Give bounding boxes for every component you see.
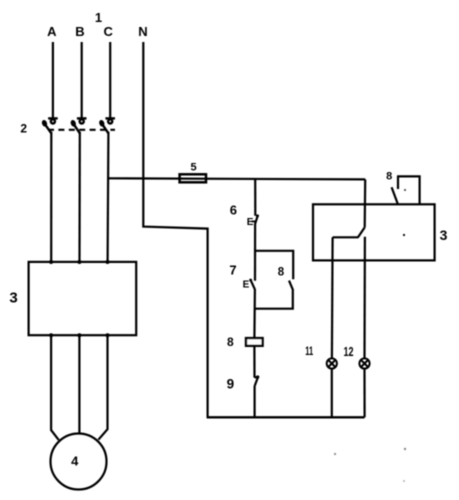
- svg-text:2: 2: [20, 121, 27, 135]
- wire contact 9 to bus: [254, 386, 256, 418]
- wire control feed horizontal: [108, 178, 366, 179]
- svg-text:8: 8: [227, 335, 234, 349]
- switch S2 mechanical link (dashed): [48, 129, 115, 131]
- wire phase C drop: [109, 42, 111, 118]
- svg-text:1: 1: [95, 10, 102, 25]
- terminal dots on box 3: [49, 260, 109, 337]
- wire neutral N drop: [143, 42, 207, 417]
- wire coil 8 to contact 9: [253, 346, 255, 378]
- wire motor lead C: [98, 335, 107, 440]
- auxiliary contact 8: [289, 281, 293, 290]
- seal-in branch bottom wire: [255, 289, 293, 309]
- contactor box 3 (right): [313, 204, 435, 260]
- wire phase A drop: [52, 42, 54, 118]
- wire motor lead A: [51, 335, 59, 440]
- thermal box 3 (left): [29, 262, 137, 335]
- bottom neutral bus: [207, 416, 365, 418]
- wire lamp 11 branch: [331, 237, 334, 358]
- wire lamp 12 to bus: [363, 369, 365, 418]
- wire lamp 12 branch: [363, 237, 366, 359]
- wire phase A to box 3: [50, 132, 52, 262]
- svg-text:6: 6: [230, 202, 237, 217]
- svg-text:12: 12: [344, 345, 354, 359]
- junction dot inside box 3: [403, 234, 405, 236]
- stray scan speck: [334, 453, 336, 455]
- svg-text:E: E: [247, 217, 254, 228]
- wire motor lead B: [78, 335, 80, 434]
- fuse F5 body: [180, 174, 206, 182]
- seal-in branch top wire: [255, 251, 293, 279]
- svg-text:B: B: [75, 24, 84, 39]
- svg-text:5: 5: [191, 162, 197, 174]
- svg-text:8: 8: [278, 266, 285, 278]
- contact 9: [255, 375, 260, 386]
- control branch: wire from feed to contact 6: [254, 179, 256, 216]
- switch S2 pole C: [98, 118, 115, 133]
- switch S2 pole B: [70, 118, 87, 133]
- coil 8 body: [246, 338, 263, 346]
- svg-text:4: 4: [71, 454, 79, 469]
- svg-text:11: 11: [305, 346, 313, 358]
- wire phase B to box 3: [78, 132, 81, 262]
- wire lamp 11 to bus: [331, 369, 333, 418]
- wire contact 7 to coil 8: [253, 289, 256, 338]
- svg-text:8: 8: [386, 171, 392, 183]
- motor M4: [51, 434, 107, 490]
- stray scan speck: [403, 480, 405, 482]
- scan speck in contact-8 bracket: [404, 189, 406, 191]
- svg-text:E: E: [243, 280, 250, 291]
- svg-text:7: 7: [229, 263, 236, 278]
- contact 7 (push-button E): [243, 279, 255, 291]
- svg-text:C: C: [104, 24, 114, 39]
- contact 8 above box 3: [392, 176, 420, 204]
- stray scan speck: [404, 448, 406, 450]
- svg-text:3: 3: [9, 289, 17, 306]
- wire contact 6 to contact 7: [254, 224, 256, 281]
- wire contactor feed drop: [364, 179, 367, 227]
- svg-text:N: N: [138, 24, 147, 39]
- lamp L11: [327, 358, 337, 368]
- switch S2 pole A: [41, 118, 58, 133]
- changeover contact inside box 3: [333, 227, 365, 237]
- svg-text:3: 3: [440, 227, 448, 243]
- wire phase B drop: [81, 42, 83, 118]
- svg-text:9: 9: [227, 376, 235, 391]
- wire phase C to box 3: [106, 132, 109, 262]
- contact 6 (push-button E): [247, 214, 259, 228]
- lamp L12: [359, 358, 369, 368]
- svg-text:A: A: [47, 24, 57, 39]
